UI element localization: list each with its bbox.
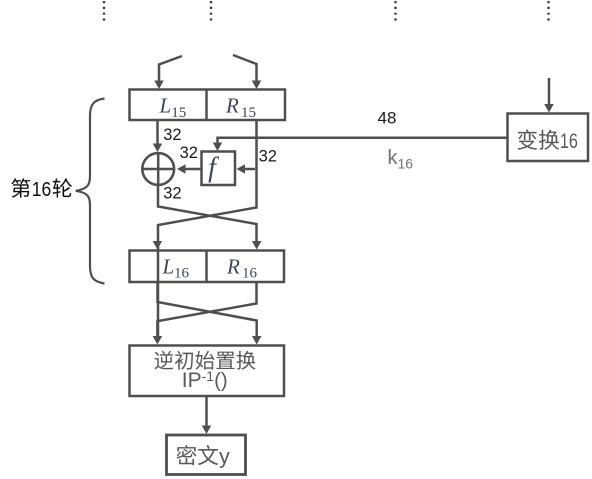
svg-text:L: L	[159, 94, 172, 118]
svg-text:16: 16	[242, 266, 258, 282]
svg-text:R: R	[225, 94, 239, 118]
svg-text:16: 16	[174, 266, 190, 282]
svg-text:32: 32	[163, 126, 181, 144]
svg-text:R: R	[226, 255, 240, 279]
svg-text:32: 32	[259, 148, 277, 166]
svg-text:32: 32	[180, 144, 198, 162]
svg-text:15: 15	[171, 105, 186, 121]
svg-text:32: 32	[163, 185, 181, 203]
svg-text:L: L	[162, 255, 175, 279]
svg-text:15: 15	[241, 105, 256, 121]
svg-text:48: 48	[378, 109, 397, 128]
svg-text:16: 16	[32, 178, 52, 201]
svg-text:y: y	[219, 445, 230, 469]
svg-text:16: 16	[560, 130, 578, 153]
